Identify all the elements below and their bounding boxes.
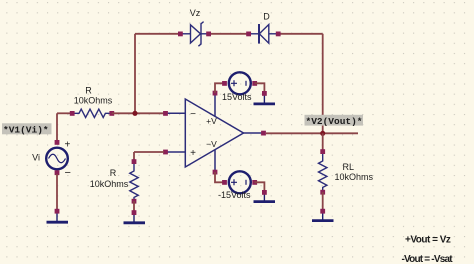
dc source V+ 15Volts — [229, 72, 251, 94]
zener diode Vz — [181, 22, 209, 47]
pin square ground V- — [262, 190, 267, 195]
wire plus input down to R2 — [133, 152, 135, 160]
op-amp U1 — [166, 93, 264, 172]
wire feedback left vertical — [134, 34, 136, 114]
pin square RL bottom — [320, 190, 325, 195]
svg-text:−V: −V — [206, 139, 217, 149]
svg-text:-15Volts: -15Volts — [218, 190, 251, 200]
wire feedback right vertical — [322, 34, 324, 134]
ground for Vi — [47, 213, 69, 222]
junction node inverting input — [132, 111, 137, 116]
ground for R2 — [124, 214, 146, 223]
wire output down to RL — [322, 133, 324, 150]
pin square ground R2 — [132, 210, 137, 215]
pin square op-amp non-inverting — [163, 150, 168, 155]
svg-text:R: R — [85, 86, 92, 96]
pin square R2 bottom — [132, 199, 137, 204]
svg-text:*V2(Vout)*: *V2(Vout)* — [306, 116, 363, 127]
pin square Vi bottom — [55, 170, 60, 175]
resistor R horizontal — [72, 109, 112, 117]
pin square ground V+ — [262, 91, 267, 96]
pin square op-amp inverting — [163, 111, 168, 116]
pin square Vi top — [55, 140, 60, 145]
pin square ground Vi — [55, 209, 60, 214]
svg-text:−: − — [190, 109, 196, 120]
wire +V pin to V+ source — [215, 83, 224, 93]
pin square R2 top — [132, 159, 137, 164]
wire input row from Vi corner to R — [57, 112, 72, 114]
pin square V- right — [252, 180, 257, 185]
pin square R right — [109, 111, 114, 116]
svg-text:-Vout = -Vsat: -Vout = -Vsat — [402, 254, 454, 264]
pin square R left — [70, 111, 75, 116]
svg-text:+: + — [65, 140, 71, 151]
net label V2(Vout) — [305, 115, 364, 127]
pin square V- left — [222, 180, 227, 185]
resistor RL — [319, 152, 327, 193]
wire top feedback left segment — [135, 33, 180, 35]
wire V+ right to ground — [255, 83, 265, 92]
pin square V+ right — [252, 81, 257, 86]
junction node output — [320, 131, 325, 136]
svg-text:+: + — [190, 148, 196, 159]
svg-text:RL: RL — [343, 162, 355, 172]
wire op-amp plus input — [134, 151, 164, 153]
svg-text:D: D — [263, 12, 270, 22]
wire R to op-amp inverting input — [112, 112, 164, 114]
wire V- right to ground — [255, 182, 265, 191]
wire top feedback right segment — [278, 33, 323, 35]
svg-text:Vz: Vz — [190, 8, 201, 18]
sine wave inside Vi — [49, 154, 66, 163]
pin square V+ left — [222, 81, 227, 86]
svg-text:*V1(Vi)*: *V1(Vi)* — [3, 125, 49, 136]
wire output row — [266, 132, 358, 134]
source V1 Vi — [46, 148, 68, 170]
ground for V- — [254, 194, 276, 202]
svg-text:+V: +V — [206, 116, 217, 126]
svg-text:15Volts: 15Volts — [222, 92, 252, 102]
pin square ground RL — [320, 209, 325, 214]
pin square Vz right — [206, 32, 211, 37]
svg-text:10kOhms: 10kOhms — [335, 172, 374, 182]
wire R2 to ground — [133, 201, 135, 211]
pin square op-amp +V — [213, 91, 218, 96]
dc source V- -15Volts — [229, 171, 251, 193]
wire top feedback middle segment — [209, 33, 249, 35]
wire Vi to ground — [56, 174, 58, 210]
wire RL to ground — [322, 192, 324, 210]
pin square Vz left — [178, 32, 183, 37]
pin square D left — [246, 32, 251, 37]
diode D — [249, 24, 279, 44]
wire -V pin to V- source — [215, 172, 224, 182]
pin square D right — [276, 32, 281, 37]
svg-text:−: − — [65, 167, 71, 179]
ground for V+ — [254, 95, 276, 104]
pin square op-amp -V — [213, 170, 218, 175]
net label V1(Vi) — [2, 123, 52, 135]
pin square op-amp output — [261, 131, 266, 136]
svg-text:R: R — [110, 168, 117, 178]
svg-text:+Vout = Vz: +Vout = Vz — [405, 235, 451, 246]
pin square RL top — [320, 149, 325, 154]
wire Vi vertical up — [56, 113, 58, 141]
svg-text:10kOhms: 10kOhms — [74, 96, 113, 106]
ground for RL — [312, 213, 334, 221]
svg-text:Vi: Vi — [32, 153, 40, 163]
svg-text:10kOhms: 10kOhms — [90, 179, 129, 189]
resistor R vertical — [130, 162, 138, 202]
